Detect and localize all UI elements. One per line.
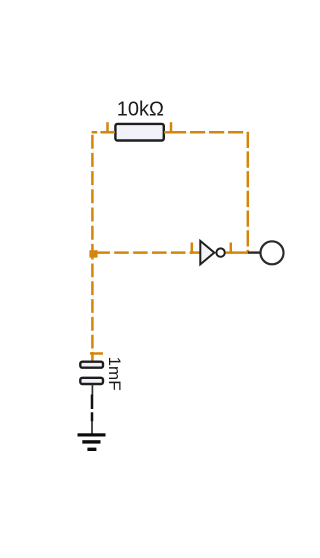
inverter output terminal tick	[230, 243, 233, 254]
resistor right lead	[164, 131, 172, 134]
wire: resistor right terminal to top-right corner (dashed)	[171, 131, 244, 134]
resistor right terminal tick	[170, 122, 173, 133]
ground symbol	[78, 433, 106, 451]
wire: junction right to inverter input terminal (dashed)	[93, 251, 192, 254]
inverter U1 (NOT gate triangle)	[200, 241, 214, 265]
capacitor C1 top plate	[80, 362, 103, 368]
resistor R1	[115, 124, 163, 141]
inverter input terminal tick	[191, 243, 194, 254]
capacitor value label 1mF (rotated)	[105, 357, 124, 391]
capacitor bottom lead (black)	[91, 385, 93, 395]
resistor left terminal tick	[106, 122, 109, 133]
inverter output bubble	[216, 248, 224, 256]
capacitor top lead	[91, 352, 94, 362]
junction node (filled square)	[89, 250, 97, 257]
wire: left vertical, corner down to junction (dashed)	[91, 132, 94, 250]
inverter output lead (solid orange)	[226, 251, 248, 254]
resistor left lead	[106, 131, 116, 134]
svg-text:1mF: 1mF	[105, 357, 124, 391]
resistor value label 10kΩ	[117, 98, 164, 120]
wire: capacitor to ground (black dashed)	[91, 395, 94, 422]
capacitor top terminal tick	[90, 352, 103, 355]
svg-text:10kΩ: 10kΩ	[117, 98, 164, 120]
wire: resistor left terminal to top-left corner (dashed)	[91, 131, 106, 134]
output probe circle	[261, 241, 284, 264]
capacitor C1 bottom plate	[80, 378, 103, 384]
wire: output junction to probe circle (black)	[248, 251, 261, 253]
wire: junction down to capacitor terminal (dashed)	[91, 256, 94, 353]
wire: right vertical, corner down to inverter output net (dashed)	[247, 132, 250, 253]
ground lead	[91, 421, 93, 433]
inverter input lead	[190, 251, 201, 254]
